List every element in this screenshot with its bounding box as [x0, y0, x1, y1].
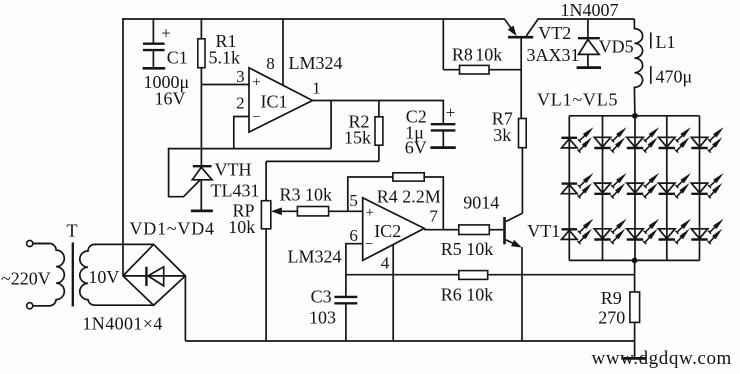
wire LED column 3: [634, 116, 636, 261]
svg-text:VT1: VT1: [527, 221, 560, 241]
label 15k: [344, 128, 371, 148]
resistor R9: [630, 260, 640, 357]
svg-text:R6 10k: R6 10k: [441, 284, 494, 304]
pin label 6: [349, 226, 358, 245]
wire IC1 output: [313, 100, 444, 102]
wire LED column 2: [602, 116, 604, 261]
label R8: [452, 44, 473, 64]
label RP: [233, 201, 255, 221]
transistor VT1 collector: [506, 213, 523, 221]
svg-text:VL1~VL5: VL1~VL5: [537, 90, 618, 110]
svg-text:+: +: [446, 103, 456, 122]
label 3k: [493, 125, 511, 145]
label 9014: [463, 192, 499, 212]
label 270: [598, 308, 625, 328]
transistor VT2 emitter with arrow: [505, 20, 516, 36]
label − input IC1: [252, 110, 260, 126]
label 1N4001×4: [82, 314, 162, 334]
label IC1: [261, 92, 288, 112]
resistor R1: [198, 19, 205, 165]
LED VL row3 col1 with emission arrows: [562, 219, 593, 244]
resistor R6: [459, 271, 488, 280]
transistor VT1 base bar: [503, 217, 506, 244]
pin label 8 and IC1 V+ pin wire: [266, 19, 283, 85]
op-amp IC1 triangle: [249, 68, 313, 132]
svg-text:1N4001×4: 1N4001×4: [82, 314, 162, 334]
label IC2: [374, 221, 401, 241]
label C2: [406, 107, 427, 127]
LED VL row2 col4 with emission arrows: [659, 174, 691, 199]
svg-text:9014: 9014: [463, 192, 499, 212]
svg-text:16V: 16V: [155, 88, 186, 108]
potentiometer RP: [261, 161, 270, 341]
svg-text:6: 6: [349, 226, 358, 245]
svg-text:C1: C1: [167, 48, 188, 68]
label TL431: [211, 181, 260, 201]
svg-text:T: T: [67, 221, 78, 241]
label ~220V: [1, 269, 51, 289]
svg-text:C3: C3: [311, 286, 332, 306]
LED VL row3 col3 with emission arrows: [627, 219, 659, 244]
LED VL row1 col3 with emission arrows: [627, 128, 659, 153]
wire R2 bottom to RP top: [266, 160, 379, 162]
inductor L1: [634, 19, 642, 116]
label − input IC2: [365, 237, 373, 253]
watermark www.dgdqw.com: [592, 348, 732, 369]
LED VL row3 col2 with emission arrows: [594, 219, 626, 244]
label 10k (R8): [475, 44, 502, 64]
pin label 2: [236, 94, 245, 113]
label + of C1: [161, 24, 171, 43]
label R7: [492, 108, 513, 128]
transformer core: [72, 243, 74, 307]
wire VT1 emitter to ground rail: [521, 247, 523, 341]
LED VL row1 col1 with emission arrows: [562, 128, 593, 153]
svg-text:+: +: [366, 205, 374, 221]
pin label 3: [236, 67, 245, 86]
LED VL row1 col5 with emission arrows: [691, 128, 723, 153]
LED VL row1 col2 with emission arrows: [594, 128, 626, 153]
label + input IC1: [252, 75, 260, 91]
LED VL row3 col5 with emission arrows: [691, 219, 723, 244]
wire LED array bottom bus: [569, 259, 699, 261]
svg-text:R3 10k: R3 10k: [280, 185, 333, 205]
LED VL row2 col1 with emission arrows: [562, 174, 593, 199]
diode symbol inside bridge: [146, 267, 163, 286]
op-amp IC2 triangle: [363, 198, 425, 261]
ground bar of VTH: [191, 210, 213, 213]
label LM324 (IC1): [289, 53, 343, 73]
shunt regulator VTH TL431: [192, 166, 212, 210]
label + of C2: [446, 103, 456, 122]
ground bar of VD5: [577, 66, 601, 69]
svg-text:1N4007: 1N4007: [561, 0, 619, 20]
resistor R8: [443, 19, 521, 74]
wire secondary top lead to bridge: [95, 243, 154, 245]
wire AC bottom lead: [33, 305, 50, 307]
wire IC2 pin6 branch: [346, 244, 363, 296]
wire top rail right section: [537, 18, 634, 20]
pin label 5: [349, 191, 358, 210]
label L1: [656, 32, 676, 52]
wire bottom ground rail: [185, 340, 634, 342]
svg-text:R9: R9: [601, 288, 622, 308]
label 1N4007: [561, 0, 619, 20]
svg-text:LM324: LM324: [288, 246, 342, 266]
svg-text:1: 1: [312, 78, 321, 97]
svg-text:LM324: LM324: [289, 53, 343, 73]
LED VL row2 col2 with emission arrows: [594, 174, 626, 199]
wire IC2 output pin7: [424, 229, 443, 231]
resistor R4 feedback: [348, 173, 444, 230]
terminal circle AC input top: [27, 240, 33, 246]
LED VL row2 col3 with emission arrows: [627, 174, 659, 199]
wire bridge internal horizontal: [123, 275, 185, 277]
svg-text:7: 7: [429, 206, 438, 225]
resistor R5: [443, 225, 503, 235]
wire VTH reference loop: [169, 148, 200, 197]
pin label 1: [312, 78, 321, 97]
label 5.1k: [209, 48, 241, 68]
svg-text:VTH: VTH: [215, 160, 252, 180]
wire feedback horizontal to VTH reference: [168, 148, 331, 150]
resistor R2: [375, 101, 383, 162]
label C3: [311, 286, 332, 306]
wire pin6 line to R6 and current sense: [346, 274, 635, 276]
capacitor C1 (electrolytic): [143, 19, 165, 67]
label R5 10k: [441, 239, 494, 259]
svg-text:103: 103: [309, 308, 336, 328]
wire IC1 pin2 input: [234, 117, 249, 149]
wire IC2 pin4 to ground rail: [392, 245, 394, 341]
label 10V: [88, 267, 119, 287]
transformer T primary winding: [33, 244, 65, 306]
svg-text:−: −: [252, 110, 260, 126]
terminal circle AC input bottom: [27, 303, 33, 309]
label R3 10k: [280, 185, 333, 205]
label 1µ (C2): [405, 123, 424, 143]
label LM324 (IC2): [288, 246, 342, 266]
svg-text:R8: R8: [452, 44, 473, 64]
resistor R3: [297, 207, 362, 216]
label VD5: [599, 37, 634, 57]
ground bar of C1: [143, 67, 166, 70]
node junction LED bottom bus to R9: [632, 258, 638, 264]
svg-text:10V: 10V: [88, 267, 119, 287]
label VL1~VL5: [537, 90, 618, 110]
label R4 2.2M: [377, 187, 441, 207]
LED VL row1 col4 with emission arrows: [659, 128, 691, 153]
bracket bar for 470µ label: [650, 66, 652, 84]
svg-text:10k: 10k: [475, 44, 502, 64]
diode VD5: [578, 19, 600, 66]
label 3AX31: [527, 45, 580, 65]
LED VL row3 col4 with emission arrows: [659, 219, 691, 244]
svg-text:270: 270: [598, 308, 625, 328]
svg-text:8: 8: [266, 54, 275, 73]
svg-text:VD1~VD4: VD1~VD4: [130, 219, 215, 239]
svg-text:470μ: 470μ: [656, 67, 693, 87]
svg-text:4: 4: [381, 253, 390, 272]
svg-text:VD5: VD5: [599, 37, 634, 57]
svg-text:15k: 15k: [344, 128, 371, 148]
svg-text:~220V: ~220V: [1, 269, 51, 289]
label 470µ: [656, 67, 693, 87]
svg-text:−: −: [365, 237, 373, 253]
svg-text:R5 10k: R5 10k: [441, 239, 494, 259]
label R2: [349, 112, 370, 132]
resistor R7: [519, 119, 527, 214]
wire IC1 feedback vertical: [330, 101, 332, 149]
transistor VT2 collector: [526, 19, 538, 36]
svg-text:2: 2: [236, 94, 245, 113]
wire left frame from top rail to bridge + output: [122, 18, 124, 276]
wire LED column 1: [568, 116, 570, 261]
svg-text:VT2: VT2: [538, 23, 571, 43]
svg-text:5.1k: 5.1k: [209, 48, 241, 68]
ground bar of R9: [621, 357, 646, 360]
wire bridge negative to bottom rail: [184, 276, 186, 341]
wire AC top lead: [33, 243, 50, 245]
label VT2: [538, 23, 571, 43]
wire IC1 pin3 input: [201, 84, 249, 86]
capacitor C2 (electrolytic): [431, 100, 456, 147]
capacitor C3: [334, 297, 357, 341]
label VTH: [215, 160, 252, 180]
wire LED array top bus: [569, 115, 699, 117]
svg-text:6V: 6V: [405, 137, 427, 157]
wiper arrow of RP: [272, 208, 298, 215]
transformer T secondary winding: [80, 244, 96, 305]
LED VL row2 col5 with emission arrows: [691, 174, 723, 199]
label R1: [216, 31, 237, 51]
label VD1~VD4: [130, 219, 215, 239]
wire VT2 base lead down: [520, 38, 522, 118]
transistor VT2 base bar: [508, 36, 533, 39]
svg-text:3: 3: [236, 67, 245, 86]
svg-text:R4 2.2M: R4 2.2M: [377, 187, 441, 207]
wire LED column 4: [666, 116, 668, 261]
svg-text:+: +: [252, 75, 260, 91]
wire secondary bottom lead to bridge: [95, 304, 154, 306]
transistor VT1 emitter with arrow: [506, 240, 522, 247]
wire top supply rail (left section): [122, 18, 505, 20]
svg-text:L1: L1: [656, 32, 676, 52]
pin label 4: [381, 253, 390, 272]
label 103: [309, 308, 336, 328]
bracket bar for L1 label: [650, 32, 652, 48]
label R9: [601, 288, 622, 308]
svg-text:IC1: IC1: [261, 92, 288, 112]
svg-text:3k: 3k: [493, 125, 511, 145]
svg-text:10k: 10k: [228, 217, 255, 237]
label R6 10k: [441, 284, 494, 304]
svg-text:3AX31: 3AX31: [527, 45, 580, 65]
label 6V (C2): [405, 137, 427, 157]
label C1: [167, 48, 188, 68]
svg-text:www.dgdqw.com: www.dgdqw.com: [592, 348, 732, 369]
svg-text:5: 5: [349, 191, 358, 210]
svg-text:TL431: TL431: [211, 181, 260, 201]
bridge rectifier VD1~VD4 diamond: [123, 244, 185, 305]
ground bar of C2: [430, 146, 455, 149]
svg-text:IC2: IC2: [374, 221, 401, 241]
label 1000µ: [144, 72, 190, 92]
wire LED column 5: [699, 116, 701, 261]
pin label 7: [429, 206, 438, 225]
label VT1: [527, 221, 560, 241]
label T: [67, 221, 78, 241]
label + input IC2: [366, 205, 374, 221]
label 16V: [155, 88, 186, 108]
node junction L1 to LED top bus: [632, 113, 638, 119]
svg-text:+: +: [161, 24, 171, 43]
label 10k (RP): [228, 217, 255, 237]
